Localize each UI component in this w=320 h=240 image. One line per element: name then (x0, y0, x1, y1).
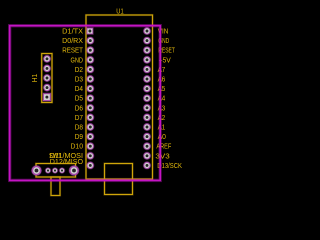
svg-text:D0/RX: D0/RX (62, 38, 83, 45)
svg-text:D8: D8 (75, 125, 83, 132)
U1 left pad D2 (86, 65, 94, 73)
U1 right pad A1 (143, 123, 151, 131)
switch SW1 body outline (36, 164, 76, 178)
U1 right pad AREF (143, 142, 151, 150)
SW1 right mounting pad (69, 165, 80, 176)
H1 pin 5 pad (43, 55, 51, 63)
H1 pin 2 pad (43, 83, 51, 91)
U1 right pad +5V (143, 56, 151, 64)
H1 pin 3 pad (43, 74, 51, 82)
U1 pin 1 square pad (D1/TX) (86, 27, 94, 35)
U1 left pad D4 (86, 84, 94, 92)
board outline Edge.Cuts glow (10, 26, 161, 181)
U1 left pad D3 (86, 75, 94, 83)
svg-text:D3: D3 (75, 77, 83, 84)
U1 right pad A7 (143, 65, 151, 73)
svg-text:D9: D9 (75, 134, 83, 141)
U1 left pad D7 (86, 113, 94, 121)
svg-text:SW1: SW1 (49, 153, 61, 160)
USB connector outline (105, 164, 133, 195)
U1 right pad A5 (143, 84, 151, 92)
U1 right pad D13/SCK (143, 161, 151, 169)
U1 left pad D11/MOSI (86, 152, 94, 160)
board outline Edge.Cuts (10, 26, 161, 181)
SW1 pin hole 2 (52, 167, 59, 174)
svg-text:GND: GND (71, 57, 84, 64)
svg-text:D1/TX: D1/TX (62, 29, 83, 36)
U1 left pad RESET (86, 46, 94, 54)
svg-text:D7: D7 (75, 115, 83, 122)
header H1 outline (42, 54, 52, 103)
SW1 left mounting pad (31, 165, 42, 176)
svg-text:U1: U1 (116, 9, 123, 16)
svg-text:3V3: 3V3 (155, 153, 169, 160)
H1 pin 4 pad (43, 64, 51, 72)
U1 right pad A6 (143, 75, 151, 83)
U1 left pad GND (86, 56, 94, 64)
U1 left pad D5 (86, 94, 94, 102)
U1 right pad A0 (143, 132, 151, 140)
svg-text:D2: D2 (75, 67, 83, 74)
U1 left pad D0/RX (86, 36, 94, 44)
U1 right pad RESET (143, 46, 151, 54)
switch SW1 actuator outline (51, 177, 60, 196)
svg-text:H1: H1 (32, 74, 39, 83)
U1 right pad A2 (143, 113, 151, 121)
svg-text:D5: D5 (75, 96, 83, 103)
U1 left pad D8 (86, 123, 94, 131)
svg-text:D10: D10 (71, 144, 84, 151)
IC module U1 outline (86, 15, 153, 179)
SW1 pin hole 1 (45, 167, 52, 174)
svg-text:D6: D6 (75, 105, 83, 112)
U1 right pad A4 (143, 94, 151, 102)
U1 left pad D6 (86, 104, 94, 112)
U1 right pad A3 (143, 104, 151, 112)
H1 pin 1 square pad (42, 93, 51, 102)
U1 left pad D9 (86, 132, 94, 140)
SW1 pin hole 3 (59, 167, 66, 174)
U1 right pad VIN (143, 27, 151, 35)
svg-text:RESET: RESET (62, 48, 83, 55)
U1 right pad 3V3 (143, 152, 151, 160)
U1 left pad D12/MISO (86, 161, 94, 169)
U1 right pad GND (143, 36, 151, 44)
U1 left pad D10 (86, 142, 94, 150)
svg-text:D4: D4 (75, 86, 83, 93)
